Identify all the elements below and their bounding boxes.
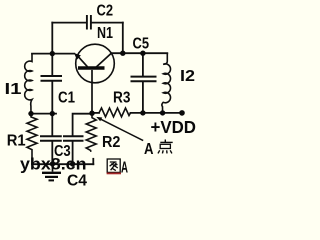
red underline of 图 <box>107 172 121 174</box>
terminal +VDD <box>179 110 185 116</box>
wire left vertical upper (junction to C1) <box>51 23 53 76</box>
node: collector/top-wire junction <box>120 51 125 56</box>
node: C3 bottom / ground <box>50 161 55 166</box>
wire bottom-left node rail <box>31 113 56 115</box>
svg-text:R3: R3 <box>113 90 130 107</box>
svg-text:A: A <box>121 160 128 177</box>
capacitor C2 <box>87 15 91 30</box>
capacitor C5 <box>131 77 157 82</box>
node: C5 top junction <box>140 51 145 56</box>
wire C5 top lead <box>142 53 144 75</box>
svg-text:R1: R1 <box>7 133 26 150</box>
resistor R3 <box>99 108 131 117</box>
capacitor C3 <box>40 136 62 141</box>
wire C5 bottom lead <box>142 82 144 113</box>
node: C4 bottom <box>70 161 75 166</box>
resistor R1 <box>27 114 37 165</box>
wire top rail right of C2 <box>92 22 123 24</box>
node: tank top junction <box>50 51 55 56</box>
wire C4 bottom lead <box>72 142 74 164</box>
node A: base/R2/R3 <box>89 111 94 116</box>
wire emitter rail <box>32 53 74 55</box>
node A arrow <box>96 117 143 141</box>
ground <box>42 164 61 181</box>
node: I2 bottom <box>160 110 165 115</box>
wire bottom-left node to C3 <box>51 114 53 136</box>
node: C1 bottom / C3 <box>50 111 55 116</box>
wire collector rail to I2 <box>111 52 167 54</box>
capacitor C1 <box>41 76 63 81</box>
inductor I1 <box>25 54 32 114</box>
svg-text:I1: I1 <box>5 81 22 98</box>
wire ground rail <box>32 163 93 165</box>
svg-text:R2: R2 <box>102 134 120 151</box>
wire R2 bottom tick <box>92 159 94 164</box>
svg-text:C1: C1 <box>58 90 75 107</box>
svg-text:I2: I2 <box>180 68 195 85</box>
node: C5 bottom <box>140 110 145 115</box>
wire bottom rail left stub <box>92 112 99 114</box>
wire C3 bottom lead to ground rail <box>51 142 53 164</box>
wire C1 to bottom-left node <box>51 82 53 114</box>
wire top rail left of C2 <box>52 22 86 24</box>
resistor R2 <box>86 113 96 152</box>
inductor I2 <box>162 53 171 113</box>
svg-text:C5: C5 <box>133 36 150 53</box>
node: I1 bottom / R1 <box>28 111 33 116</box>
wire C4 branch to base node <box>73 114 92 136</box>
transistor N1 <box>74 44 114 113</box>
svg-text:N1: N1 <box>97 25 113 42</box>
svg-text:A: A <box>144 141 154 158</box>
wire bottom rail to +VDD terminal <box>131 112 183 114</box>
svg-text:C2: C2 <box>97 2 114 19</box>
wire base lead <box>91 70 93 113</box>
svg-text:ybx8.cn: ybx8.cn <box>20 156 87 174</box>
label 点 (drawn) <box>158 140 173 154</box>
svg-text:+VDD: +VDD <box>151 117 197 137</box>
svg-text:C4: C4 <box>67 173 87 190</box>
label 图 (drawn) <box>107 159 120 172</box>
capacitor C4 <box>63 136 84 141</box>
wire top-right drop to collector rail <box>122 23 124 54</box>
